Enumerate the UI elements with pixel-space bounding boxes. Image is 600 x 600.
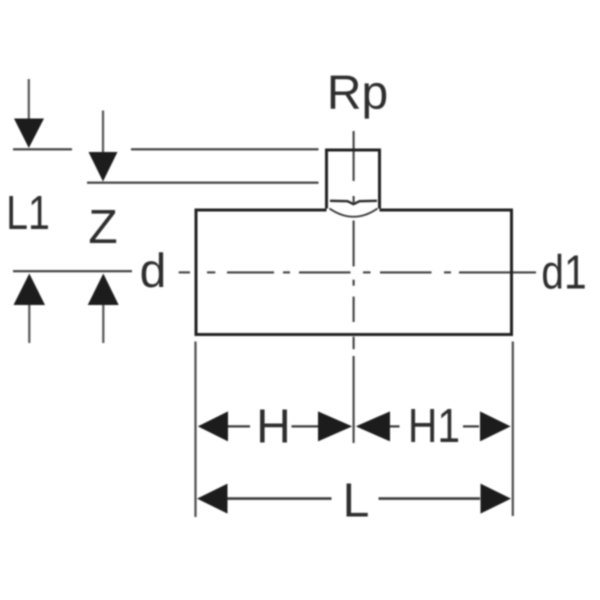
dimension H1 arrows and line <box>356 411 511 441</box>
right extension line below body <box>512 342 514 517</box>
label Rp <box>331 76 386 119</box>
label d1 <box>543 254 585 289</box>
thread end line inside branch <box>330 201 377 204</box>
left extension line below body <box>194 342 196 518</box>
horizontal centerline (run axis d-d1, dash-dot) <box>179 271 536 273</box>
dimension L1 lower arrow <box>14 274 46 344</box>
label H <box>260 409 287 442</box>
label Z <box>90 210 116 243</box>
dimension Z lower arrow <box>88 274 119 344</box>
dimension Z upper arrow <box>89 111 118 182</box>
label d <box>142 252 164 287</box>
extension line (thread depth level) <box>87 182 319 184</box>
label L <box>347 483 368 516</box>
dimension L arrows and line <box>197 484 511 514</box>
dimension L1 upper arrow <box>13 79 72 149</box>
shared lower tick for L1 / Z <box>13 270 132 272</box>
vertical centerline (branch axis, dash-dot) <box>353 131 355 443</box>
socket dome arc <box>330 209 378 217</box>
main body (tee fitting run) <box>196 209 512 337</box>
label H1 <box>411 409 458 442</box>
label L1 <box>9 196 48 229</box>
top extension line (branch top level) <box>131 148 319 150</box>
dimension H arrows and line <box>198 411 352 441</box>
branch outlet Rp <box>325 150 381 209</box>
